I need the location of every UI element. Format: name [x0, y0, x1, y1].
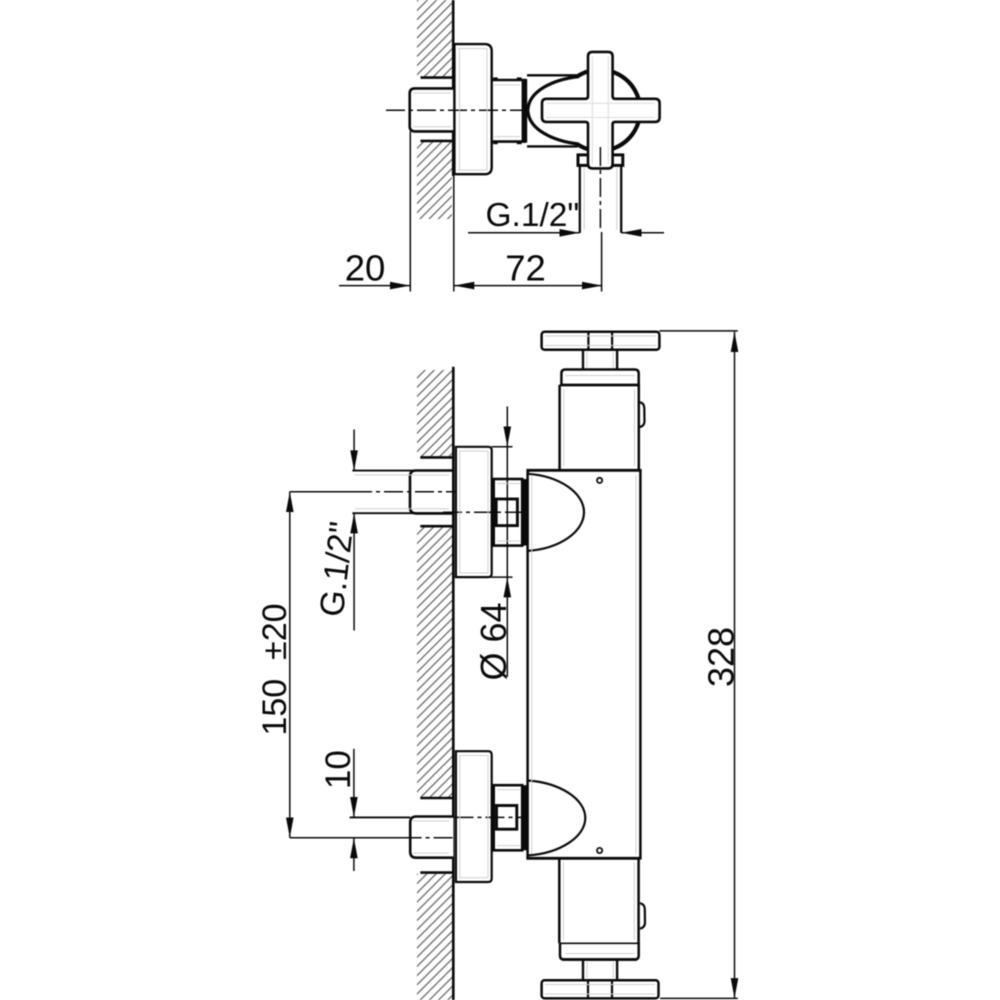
hatch 2 top boundary: [420, 525, 452, 528]
dim Ø64 line (passes through union): [506, 407, 508, 677]
bottom cap top edge: [560, 942, 640, 944]
wall left edge / extension line: [409, 132, 411, 292]
outlet collar tab right: [612, 155, 623, 166]
lower supply centerline solid extension: [290, 837, 403, 839]
svg-text:150 ±20: 150 ±20: [256, 603, 294, 735]
esc bottom extension line: [455, 576, 513, 578]
svg-text:10: 10: [319, 750, 358, 789]
outlet pipe centerline (dash-dot): [599, 147, 601, 232]
lower square drive: [497, 806, 517, 830]
wall hatch segment B (top view lower): [417, 141, 452, 219]
svg-text:328: 328: [701, 627, 742, 687]
arrow 72 right-pointing: [582, 282, 602, 290]
dim 328 line: [734, 332, 736, 999]
hatch 1 bottom boundary: [420, 456, 452, 459]
top cap bottom edge: [560, 384, 640, 387]
upper supply centerline dash-dot: [353, 491, 456, 493]
lower screw dot: [597, 848, 602, 853]
esc top extension line: [492, 446, 513, 448]
top stem: [583, 350, 617, 370]
arrow down at 328 bottom: [731, 978, 739, 998]
G.1/2 top dim arrow left-pointing: [621, 229, 641, 237]
arrow 20 right-pointing: [390, 282, 410, 290]
upper right clip tab: [640, 402, 645, 427]
wall flange / escutcheon (top view): [454, 44, 491, 174]
arrow down at 150 bottom: [286, 818, 294, 838]
upper union black gap bar: [522, 479, 529, 546]
narrow body top section sides: [558, 385, 561, 471]
lower union black gap bar: [522, 785, 529, 850]
dim G.1/2 (lower) upper segment: [353, 430, 355, 471]
lower union D-arc on body: [528, 781, 586, 856]
dim 10 lower segment: [353, 838, 355, 871]
G.1/2 top dim arrow right-pointing: [560, 229, 580, 237]
upper supply centerline solid extension: [290, 491, 353, 493]
top cap: [561, 370, 638, 385]
upper square drive: [496, 499, 517, 526]
dim G.1/2 (lower) lower segment: [353, 513, 355, 630]
svg-text:G.1/2": G.1/2": [485, 197, 579, 234]
wall hatch A bottom boundary line: [421, 76, 453, 79]
arrow up tip at esc bottom: [504, 577, 512, 597]
bottom handle bar: [542, 980, 659, 998]
svg-text:20: 20: [345, 248, 386, 289]
bottom stem: [583, 960, 617, 981]
wall hatch segment 3 (lower view): [417, 874, 452, 1000]
wall edge line (lower view): [452, 367, 455, 1000]
neck nub bottom-right: [517, 141, 522, 144]
lower union nut: [494, 785, 523, 850]
valve cone white fill body: [528, 77, 579, 144]
handle circle: [559, 70, 640, 151]
lower supply hex nut: [410, 817, 453, 858]
lower supply pipe top edge (with 10-dim extension): [350, 816, 411, 818]
arrow up at 150 top: [286, 492, 294, 512]
body bottom shoulder line: [526, 857, 640, 860]
valve cone upper curve: [528, 77, 579, 111]
body top shoulder line: [526, 469, 640, 472]
neck nub top-left: [493, 77, 498, 80]
horizontal centerline (top view): [386, 109, 528, 111]
wall hatch segment A (top view upper): [417, 0, 452, 77]
upper supply hex nut: [410, 471, 453, 514]
arrow down tip at pipe top: [350, 450, 358, 470]
upper supply pipe bottom edge: [352, 512, 453, 514]
dim 150±20 line: [289, 492, 291, 838]
arrow down tip at esc top: [504, 427, 512, 447]
wall hatch segment 2 (lower view): [417, 527, 452, 797]
valve body top line: [527, 74, 578, 76]
328 bottom extension line: [660, 997, 738, 999]
bottom handle bar inner verticals: [587, 980, 589, 998]
dim line 72: [454, 285, 602, 287]
narrow body bottom section sides: [558, 858, 561, 943]
outlet extension line down to 72-dim: [601, 232, 603, 292]
faint inner shading lines (lower view): [355, 336, 656, 994]
hatch 3 top boundary: [420, 871, 452, 874]
dim 10 upper segment: [353, 749, 355, 818]
wall right edge (top view) thick part: [452, 0, 455, 176]
valve cone lower curve: [528, 110, 579, 144]
neck nub bottom-left: [493, 141, 498, 144]
cross handle (top view): [542, 52, 660, 168]
neck nub top-right: [517, 77, 522, 80]
outlet pipe right edge: [620, 166, 622, 233]
upper screw dot: [597, 478, 602, 483]
upper union centerline dash-dot: [443, 511, 526, 513]
lower escutcheon (side): [456, 751, 492, 882]
bottom cap: [560, 943, 639, 959]
hatch 2 bottom boundary: [420, 797, 452, 800]
G.1/2 top dim line right segment: [621, 232, 664, 234]
wall right edge extension (thin): [453, 176, 455, 292]
faint inner shading lines (top view): [413, 49, 655, 231]
bottom cap bottom edge: [562, 958, 637, 961]
arrow down tip at pipe top edge: [350, 797, 358, 817]
supply pipe hex nut (top view, behind wall): [410, 88, 454, 131]
top handle bar: [542, 332, 660, 350]
lower union centerline dash-dot: [455, 816, 525, 818]
upper union nut: [494, 479, 523, 546]
outlet collar tab left: [578, 155, 589, 166]
arrow up tip at pipe bottom: [350, 513, 358, 533]
arrow 72 left-pointing: [454, 282, 474, 290]
arrow up at 328 top: [731, 332, 739, 352]
lower right clip tab: [640, 903, 645, 928]
svg-text:72: 72: [505, 248, 546, 289]
upper supply pipe top edge: [352, 470, 453, 472]
valve neck top edge: [493, 79, 527, 82]
wall hatch segment 1 (lower view): [417, 370, 452, 456]
top handle bar inner verticals: [587, 332, 589, 350]
lower supply centerline dash-dot: [403, 837, 456, 839]
328 top extension line: [659, 330, 737, 332]
G.1/2 top dim line left segment: [468, 232, 580, 234]
dim line 20: [339, 285, 410, 287]
valve body bottom line: [527, 145, 578, 147]
upper escutcheon (side): [456, 447, 492, 577]
valve neck bottom edge: [493, 140, 527, 143]
outlet pipe left edge: [579, 166, 581, 233]
main body wide section: [528, 470, 641, 858]
svg-text:Ø 64: Ø 64: [473, 602, 514, 680]
wall hatch B top boundary line: [421, 140, 453, 143]
neck right thick black bar: [522, 79, 528, 143]
upper union D-arc on body: [528, 474, 584, 551]
arrow up tip at supply centerline: [350, 838, 358, 858]
